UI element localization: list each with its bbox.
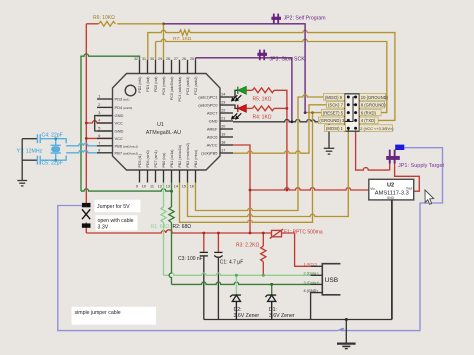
svg-text:Jumper for 5V: Jumper for 5V — [97, 204, 130, 210]
svg-text:6: 6 — [98, 134, 100, 138]
pin 27 PC4 — [174, 57, 182, 102]
svg-text:(SCK) 7: (SCK) 7 — [328, 103, 344, 108]
svg-text:GND: GND — [387, 196, 395, 200]
svg-text:PC4 (adc4/sda): PC4 (adc4/sda) — [178, 77, 182, 102]
svg-text:3.3V: 3.3V — [98, 224, 109, 230]
wire GND pins 3-5 — [95, 116, 113, 131]
pin 14 PB2 — [174, 145, 182, 189]
svg-text:R1: 68Ω: R1: 68Ω — [151, 224, 170, 230]
svg-text:U2: U2 — [387, 182, 394, 188]
label ISP pin10 GROUND — [360, 94, 389, 101]
crystal Y1 — [51, 139, 61, 161]
LED green indicator — [231, 86, 246, 101]
wire XTAL2 to pin8 — [66, 151, 97, 153]
svg-text:24: 24 — [221, 93, 225, 97]
diode D2 zener — [230, 295, 241, 319]
pin 5 GND — [97, 127, 124, 134]
svg-text:3 (Data+): 3 (Data+) — [304, 281, 321, 285]
pin 21 GND — [209, 117, 233, 124]
wire target VCC from regulator — [395, 164, 420, 192]
capacitor C1 — [214, 252, 222, 257]
wire XTAL1 to pin7 — [66, 144, 97, 146]
svg-text:PC3 (adc3): PC3 (adc3) — [186, 77, 190, 95]
svg-text:(RESET) 5: (RESET) 5 — [323, 110, 344, 115]
svg-text:9: 9 — [136, 185, 138, 189]
wire JP2 self-program net — [164, 24, 306, 113]
node D+ R2 junction — [170, 190, 173, 193]
svg-text:6 (RXD): 6 (RXD) — [361, 110, 377, 115]
resistor R7 — [179, 30, 190, 35]
svg-text:5: 5 — [98, 127, 100, 131]
node JP3 to ground — [291, 120, 294, 123]
svg-text:R3: 2.2KΩ: R3: 2.2KΩ — [236, 243, 259, 249]
cursor pointer — [425, 190, 434, 204]
pin 16 PB4 — [190, 150, 198, 189]
svg-text:3.6V Zener: 3.6V Zener — [269, 313, 295, 319]
svg-text:PC2 (adc2): PC2 (adc2) — [194, 77, 198, 95]
pin 3 GND — [97, 111, 124, 118]
svg-text:C5: 22pF: C5: 22pF — [42, 160, 63, 166]
wire RESET pin14 to ISP — [180, 113, 313, 223]
label ISP pin6 RXD — [360, 109, 382, 116]
node LED resistors junction — [286, 107, 289, 110]
label open-with-cable — [96, 215, 138, 230]
wire D+ horizontal to USB — [172, 282, 311, 284]
svg-text:3: 3 — [98, 111, 100, 115]
svg-text:PB4 (miso): PB4 (miso) — [194, 150, 198, 168]
svg-text:PD0 (rxd): PD0 (rxd) — [154, 77, 158, 92]
svg-text:Y1: 12MHz: Y1: 12MHz — [17, 148, 43, 154]
node R3 on D- — [262, 274, 265, 277]
capacitor C5 — [37, 156, 66, 165]
svg-text:PB2 (ss/oc1b): PB2 (ss/oc1b) — [178, 145, 182, 168]
svg-text:30: 30 — [150, 57, 154, 61]
node crystal bottom — [54, 159, 57, 162]
jumper 5V block — [82, 203, 91, 228]
wire 5V rail — [86, 230, 271, 233]
connector USB — [322, 264, 340, 295]
svg-text:1 (VCC): 1 (VCC) — [304, 263, 318, 267]
pin 1 PD3 — [97, 95, 129, 102]
wire 5V to USB VCC — [282, 233, 311, 266]
svg-text:JP2: Self Program: JP2: Self Program — [284, 16, 326, 22]
label ISP pin7 SCK — [326, 101, 344, 108]
svg-text:4 (GND): 4 (GND) — [304, 289, 319, 293]
wire supply-select purple cable — [58, 148, 443, 331]
wire C1 top lead — [217, 233, 219, 252]
svg-text:GND: GND — [209, 119, 218, 124]
label ISP pin3 GROUND — [318, 117, 345, 124]
svg-text:open with cable: open with cable — [98, 218, 134, 224]
resistor R3 — [261, 233, 266, 275]
svg-text:26: 26 — [182, 57, 186, 61]
jumper JP3 — [257, 50, 267, 61]
wire AVCC branch — [233, 145, 250, 233]
svg-text:27: 27 — [174, 57, 178, 61]
pin 6 VCC — [97, 134, 123, 141]
pin 22 ADC7 — [207, 109, 233, 116]
svg-text:12: 12 — [158, 185, 162, 189]
svg-text:(MISO) 9: (MISO) 9 — [325, 95, 343, 100]
svg-text:ADC7: ADC7 — [207, 111, 218, 116]
svg-text:17: 17 — [221, 149, 225, 153]
node VCC pin6 tap — [85, 137, 88, 140]
wire D2 branch — [235, 275, 237, 294]
jumper JP2 — [271, 14, 281, 25]
wire D1 branch — [271, 284, 273, 294]
wire crystal ground — [22, 139, 37, 181]
svg-text:(MOSI) 1: (MOSI) 1 — [326, 126, 344, 131]
pin 18 AVCC — [207, 141, 233, 148]
svg-text:VCC: VCC — [115, 121, 124, 126]
svg-text:2: 2 — [98, 103, 100, 107]
svg-text:7: 7 — [98, 141, 100, 145]
pin 2 PD4 — [97, 103, 132, 110]
svg-text:8: 8 — [98, 148, 100, 152]
resistor R5 — [246, 88, 287, 109]
svg-text:19: 19 — [221, 133, 225, 137]
svg-text:PD4 (xck/t0): PD4 (xck/t0) — [115, 105, 133, 110]
wire R1 D- branch — [161, 183, 166, 276]
wire C1 bottom lead — [217, 258, 219, 320]
svg-text:U1: U1 — [157, 122, 164, 128]
wire D+ horizontal to R2 node — [81, 189, 172, 191]
pin 15 PB3 — [182, 143, 190, 189]
node JP1 highlight block — [395, 145, 404, 150]
node R3 rail tap — [262, 232, 265, 235]
node VCC pin4 tap — [85, 122, 88, 125]
node D1 on D+ — [270, 283, 273, 286]
node ground symbol tap — [345, 318, 348, 321]
capacitor C4 — [37, 134, 66, 143]
label ISP pin9 MISO — [323, 94, 344, 101]
svg-text:(sck)PB5: (sck)PB5 — [201, 151, 218, 156]
node ISP ground tap — [328, 120, 331, 123]
svg-text:15: 15 — [182, 185, 186, 189]
svg-text:AREF: AREF — [207, 127, 218, 132]
pin 12 PB0 — [158, 153, 166, 189]
svg-text:PB0 (icp): PB0 (icp) — [162, 153, 166, 168]
svg-text:VCC: VCC — [115, 136, 124, 141]
pin 25 PC2 — [190, 57, 198, 95]
wire ISP reset row — [305, 112, 324, 114]
pin 24 (adc1)PC1 — [198, 93, 233, 100]
wire C3 bottom lead — [203, 256, 205, 320]
svg-text:4 (TXD): 4 (TXD) — [361, 118, 376, 123]
svg-text:13: 13 — [166, 185, 170, 189]
svg-text:GND: GND — [115, 129, 124, 134]
svg-text:C3: 100 nF: C3: 100 nF — [178, 256, 203, 262]
pin 7 PB6 — [97, 141, 138, 148]
pin 8 PB7 — [97, 148, 138, 155]
node C1 rail tap — [217, 232, 220, 235]
pin 4 VCC — [97, 119, 123, 126]
svg-text:(adc0)PC0: (adc0)PC0 — [198, 103, 218, 108]
svg-text:PD5 (t1): PD5 (t1) — [138, 154, 142, 167]
pin 28 PC5 — [166, 57, 174, 100]
node AVCC rail tap — [249, 232, 252, 235]
pin 23 (adc0)PC0 — [198, 101, 233, 108]
pin 20 AREF — [207, 125, 233, 132]
jumper JP1 — [386, 150, 400, 164]
wire MOSI pin15 to ISP — [188, 131, 349, 216]
svg-text:simple jumper cable: simple jumper cable — [75, 310, 121, 316]
label ISP pin2 VCC — [360, 125, 395, 132]
wire SCK pin17 to ISP — [233, 105, 327, 153]
pin 11 PD7 — [150, 150, 158, 188]
ground earth USB — [337, 344, 356, 349]
svg-text:PC6 (reset): PC6 (reset) — [162, 77, 166, 95]
wire GND pin21 to ISP — [233, 120, 345, 122]
pin 30 PD0 — [150, 57, 158, 92]
svg-text:PB7 (xtal2/tosc2): PB7 (xtal2/tosc2) — [115, 150, 139, 155]
svg-text:29: 29 — [158, 57, 162, 61]
svg-text:25: 25 — [190, 57, 194, 61]
svg-text:2 (VCC <+3.3/5V>): 2 (VCC <+3.3/5V>) — [360, 126, 394, 131]
wire VCC to pin4 — [86, 121, 112, 123]
wire JP3 slow-SCK net — [196, 58, 292, 122]
svg-text:11: 11 — [150, 185, 154, 189]
ground left — [17, 181, 27, 186]
svg-text:1: 1 — [98, 95, 100, 99]
label ISP pin5 RESET — [321, 109, 344, 116]
svg-text:R2: 68Ω: R2: 68Ω — [173, 224, 192, 230]
wire D+ to INT0 pin32 — [81, 54, 140, 191]
wire earth stub — [345, 320, 347, 344]
svg-text:GND: GND — [115, 113, 124, 118]
svg-text:21: 21 — [221, 117, 225, 121]
svg-text:Vout: Vout — [406, 187, 412, 191]
svg-text:16: 16 — [190, 185, 194, 189]
wire JP1 left leg — [389, 164, 391, 171]
wire ISP ground stub — [328, 122, 330, 149]
svg-text:8 (GROUND): 8 (GROUND) — [361, 103, 386, 108]
svg-text:PB1 (oc1a): PB1 (oc1a) — [170, 150, 174, 168]
node reset row junction — [311, 111, 314, 114]
wire ground rail — [204, 319, 392, 321]
wire LED common to 5V — [286, 108, 288, 190]
wire VCC vertical left — [86, 24, 98, 233]
wire ISP VCC down — [356, 131, 390, 170]
svg-text:PB6 (xtal1/tosc1): PB6 (xtal1/tosc1) — [115, 143, 139, 148]
svg-text:AVCC: AVCC — [207, 143, 218, 148]
wire VCC to pin6 — [86, 137, 112, 139]
pin 10 PD6 — [142, 150, 150, 188]
wire R2 D+ branch — [169, 183, 174, 285]
wire reset pullup to pin29 — [163, 24, 165, 60]
node Vin branch — [249, 189, 252, 192]
diode D1 zener — [265, 295, 276, 319]
wire USB pin4 to ground — [311, 293, 323, 320]
svg-text:PC5 (adc5/scl): PC5 (adc5/scl) — [170, 77, 174, 101]
node JP2 reset junction — [304, 111, 307, 114]
ground ISP — [324, 148, 335, 154]
svg-text:Vin: Vin — [370, 187, 375, 191]
wire 5V to regulator Vin — [250, 188, 369, 190]
wire C3 top lead — [203, 233, 205, 252]
svg-text:JP1: Supply Target: JP1: Supply Target — [398, 163, 445, 169]
capacitor C3 — [200, 252, 208, 256]
resistor R4 — [246, 106, 287, 111]
svg-text:18: 18 — [221, 141, 225, 145]
fuse F1 — [270, 229, 283, 239]
svg-text:3.6V Zener: 3.6V Zener — [234, 313, 260, 319]
IC U2 regulator — [369, 179, 414, 200]
wire USB pin2 stub — [311, 274, 323, 276]
node LED 5V junction — [286, 189, 289, 192]
svg-text:C4: 22pF: C4: 22pF — [42, 132, 63, 138]
pin 19 ADC6 — [207, 133, 233, 140]
pin 32 PD2 — [134, 57, 142, 93]
svg-text:23: 23 — [221, 101, 225, 105]
svg-text:20: 20 — [221, 125, 225, 129]
svg-text:4: 4 — [98, 119, 100, 123]
svg-text:22: 22 — [221, 109, 225, 113]
svg-text:31: 31 — [142, 57, 146, 61]
svg-text:PD7 (ain1): PD7 (ain1) — [154, 150, 158, 167]
svg-text:ATMega8L-AU: ATMega8L-AU — [146, 130, 181, 136]
svg-text:JP3: Slow SCK: JP3: Slow SCK — [270, 57, 306, 63]
wire USB pin3 stub — [311, 283, 323, 285]
svg-text:USB: USB — [325, 277, 339, 284]
node D2 on D- — [235, 274, 238, 277]
pin 29 PC6 — [158, 57, 166, 95]
svg-text:PD6 (ain0): PD6 (ain0) — [146, 150, 150, 167]
svg-text:28: 28 — [166, 57, 170, 61]
svg-text:ADC6: ADC6 — [207, 135, 218, 140]
svg-text:2 (Data-): 2 (Data-) — [304, 272, 320, 276]
node crystal top — [54, 137, 57, 140]
wire USB pin1 stub — [311, 265, 323, 267]
connector ISP header — [345, 94, 360, 131]
svg-text:32: 32 — [134, 57, 138, 61]
svg-text:14: 14 — [174, 185, 178, 189]
label ISP pin1 MOSI — [324, 125, 345, 132]
pin 31 PD1 — [142, 57, 150, 92]
svg-text:C1: 4.7 µF: C1: 4.7 µF — [220, 260, 243, 266]
label jumper-for-5V — [95, 200, 141, 212]
svg-text:PB3 (mosi/oc2): PB3 (mosi/oc2) — [186, 143, 190, 168]
node C3 rail tap — [202, 232, 205, 235]
wire U2 ground — [391, 200, 393, 320]
svg-text:PD2 (int0): PD2 (int0) — [138, 77, 142, 93]
resistor R6 — [99, 21, 164, 26]
wire D- horizontal to USB — [164, 273, 311, 275]
svg-text:R4: 1KΩ: R4: 1KΩ — [253, 115, 272, 121]
svg-text:R5: 1KΩ: R5: 1KΩ — [253, 97, 272, 103]
label ISP pin8 GROUND — [360, 101, 387, 108]
label simple jumper cable — [72, 307, 157, 325]
pin 9 PD5 — [136, 154, 142, 188]
node R6/pin29/JP2 junction — [162, 22, 165, 25]
svg-text:R6: 10KΩ: R6: 10KΩ — [93, 15, 115, 21]
LED red indicator — [231, 105, 246, 120]
svg-text:(GROUND) 3: (GROUND) 3 — [319, 118, 345, 123]
pin 26 PC3 — [182, 57, 190, 95]
svg-text:PD3 (int1): PD3 (int1) — [115, 97, 130, 102]
label ISP pin4 TXD — [360, 117, 379, 124]
svg-text:10: 10 — [142, 185, 146, 189]
svg-text:10 (GROUND): 10 (GROUND) — [361, 95, 389, 100]
wire RXD from pin30 — [156, 39, 387, 112]
wire TXD from pin31 through R7 — [148, 30, 395, 120]
node ISP pins — [347, 96, 357, 130]
wire MISO pin16 to ISP — [196, 95, 325, 211]
svg-text:PD1 (txd): PD1 (txd) — [146, 77, 150, 92]
svg-text:(adc1)PC1: (adc1)PC1 — [198, 95, 218, 100]
IC U1 ATMega8L-AU body — [113, 74, 221, 171]
pin 13 PB1 — [166, 150, 174, 189]
pin 17 (sck)PB5 — [201, 149, 233, 156]
